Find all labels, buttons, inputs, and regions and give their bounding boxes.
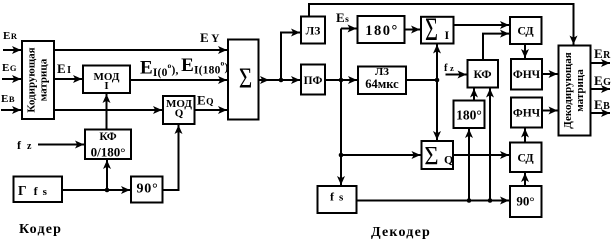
svg-text:64мкс: 64мкс — [365, 77, 399, 91]
svg-text:fz: fz — [17, 138, 32, 152]
svg-text:матрица: матрица — [574, 69, 586, 112]
svg-text:Q: Q — [444, 153, 453, 167]
svg-text:fz: fz — [444, 63, 454, 74]
svg-text:EQ: EQ — [197, 93, 214, 108]
svg-text:ЛЗ: ЛЗ — [306, 26, 321, 38]
svg-text:ФНЧ: ФНЧ — [513, 108, 541, 120]
svg-text:Кодирующая: Кодирующая — [26, 47, 38, 112]
svg-text:Гfs: Гfs — [18, 183, 48, 198]
svg-text:90°: 90° — [137, 182, 159, 197]
svg-text:EY: EY — [200, 30, 220, 45]
svg-text:СД: СД — [517, 151, 534, 165]
svg-text:90°: 90° — [516, 194, 534, 209]
svg-text:Σ: Σ — [239, 62, 252, 94]
svg-text:180°: 180° — [456, 108, 482, 123]
svg-text:I: I — [445, 28, 450, 42]
svg-text:СД: СД — [517, 24, 534, 38]
svg-text:Кодер: Кодер — [19, 222, 62, 237]
svg-text:EI: EI — [57, 61, 71, 76]
svg-text:EB: EB — [594, 97, 610, 112]
svg-text:Es: Es — [336, 10, 349, 25]
svg-text:EG: EG — [594, 73, 611, 88]
svg-text:Декодер: Декодер — [371, 225, 431, 240]
svg-text:Σ: Σ — [425, 12, 438, 48]
svg-text:EB: EB — [1, 93, 15, 105]
svg-text:ER: ER — [594, 46, 611, 61]
svg-text:КФ: КФ — [99, 131, 116, 143]
svg-text:I: I — [104, 80, 108, 92]
svg-text:КФ: КФ — [473, 67, 491, 81]
svg-text:ФНЧ: ФНЧ — [513, 69, 541, 81]
svg-text:матрица: матрица — [38, 58, 50, 101]
svg-text:180°: 180° — [365, 23, 399, 39]
svg-text:Q: Q — [175, 108, 184, 120]
svg-text:ПФ: ПФ — [304, 75, 323, 87]
svg-text:Σ: Σ — [424, 140, 438, 170]
svg-text:EG: EG — [2, 62, 17, 74]
svg-text:0/180°: 0/180° — [91, 145, 126, 160]
svg-text:EI(0o),EI(180o): EI(0o),EI(180o) — [140, 55, 229, 79]
svg-text:ER: ER — [3, 30, 18, 42]
svg-text:Декодирующая: Декодирующая — [562, 52, 574, 129]
